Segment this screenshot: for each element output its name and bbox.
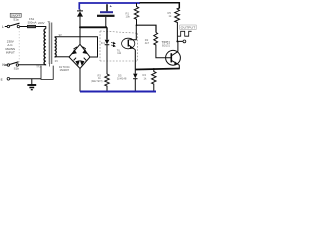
junction dot collector node [176, 40, 178, 42]
diode bottom-right [80, 60, 85, 66]
diode D7 series [77, 9, 83, 16]
black rail top right [140, 3, 180, 9]
diode D5 [133, 70, 137, 92]
diode top-right [82, 49, 87, 54]
svg-text:S1a: S1a [13, 18, 19, 22]
svg-text:500mA: 500mA [28, 21, 37, 25]
svg-text:TR1: TR1 [36, 65, 41, 68]
wire Q1 collector [177, 41, 179, 51]
resistor R5 top right [175, 8, 180, 25]
node line B (R1 to base resistor) [136, 25, 156, 32]
svg-text:220V: 220V [38, 21, 45, 25]
fuse FS1 [27, 25, 35, 28]
transformer screen box [41, 66, 53, 80]
resistor R1 top [134, 3, 138, 25]
diode top-left [72, 49, 77, 54]
node line A (cap and LED feed) [80, 26, 107, 28]
wire Q1 emitter to rail [177, 65, 180, 69]
square wave symbol [178, 31, 192, 36]
capacitor C1 [97, 4, 115, 27]
switch S1a [7, 23, 19, 27]
svg-text:L: L [2, 25, 4, 29]
svg-text:INPUT: INPUT [6, 50, 15, 54]
resistor R2 [154, 33, 158, 48]
output label box [180, 25, 196, 30]
svg-text:E: E [1, 78, 3, 82]
optocoupler dashed box [100, 31, 138, 61]
switch gang dashed link [18, 25, 20, 62]
transformer secondary winding [55, 37, 57, 57]
light arrows [111, 42, 115, 44]
LED inside optocoupler [105, 27, 116, 74]
switch box label ON/OFF [10, 13, 21, 17]
wire N to primary bottom [19, 64, 46, 66]
output terminal [183, 40, 186, 43]
wire bridge plus up [79, 17, 81, 45]
wire fuse to transformer primary [36, 27, 46, 29]
svg-text:OUTPUT: OUTPUT [181, 26, 196, 30]
svg-text:1N4007: 1N4007 [60, 68, 70, 72]
switch S1b [5, 62, 19, 66]
transformer T1 primary winding [44, 29, 46, 65]
transformer core [49, 23, 52, 65]
ground symbol [27, 79, 36, 90]
blue positive rail top [79, 3, 140, 10]
black emitter rail [136, 69, 180, 70]
wire bridge minus down [79, 69, 81, 92]
wire R2 to Q1 base [156, 47, 171, 58]
svg-text:1N4148: 1N4148 [117, 77, 127, 81]
resistor R3 [105, 74, 109, 92]
screen stub [49, 64, 51, 67]
svg-text:10k: 10k [126, 15, 131, 19]
svg-text:S1b: S1b [14, 67, 20, 71]
junction dot [153, 68, 155, 70]
svg-text:111: 111 [117, 52, 121, 55]
wire switch to fuse [20, 26, 28, 28]
resistor R4 [152, 69, 156, 91]
diode bottom-left [75, 60, 80, 66]
svg-text:0V: 0V [55, 59, 58, 63]
junction dot [79, 26, 81, 28]
junction dot [136, 24, 138, 26]
transistor Q1 TIP61 [166, 50, 181, 65]
svg-text:(SEE TEXT): (SEE TEXT) [91, 80, 103, 83]
wire earth [10, 78, 41, 80]
svg-text:4k7: 4k7 [145, 41, 150, 45]
wire secondary top to bridge [55, 37, 98, 57]
wire secondary bottom to bridge [55, 56, 69, 58]
phototransistor [122, 25, 137, 69]
svg-text:BD131: BD131 [162, 43, 170, 47]
blue negative rail bottom [80, 91, 156, 93]
bridge rectifier D1-D4 [69, 44, 90, 68]
wire R5 to collector node [177, 25, 182, 41]
label 230V AC MAINS INPUT [6, 40, 16, 55]
wire L lead [5, 26, 7, 28]
